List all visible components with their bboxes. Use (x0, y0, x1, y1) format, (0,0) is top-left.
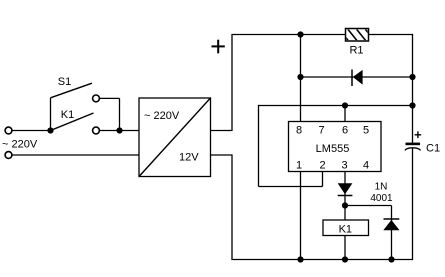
wire flyback drop (391, 206, 393, 260)
wire threshold row (259, 105, 413, 107)
svg-text:7: 7 (318, 125, 324, 137)
relay coil K1 (323, 220, 369, 236)
wire right rail lower (412, 149, 414, 260)
svg-text:12V: 12V (179, 152, 199, 164)
node K (bottom rail / flyback) (388, 256, 394, 262)
svg-text:2: 2 (319, 159, 325, 171)
svg-text:1N: 1N (375, 182, 388, 193)
node H (output / flyback branch) (342, 202, 348, 208)
node C (top rail / pin8 riser) (297, 31, 303, 37)
svg-text:K1: K1 (339, 224, 352, 236)
svg-text:5: 5 (363, 125, 369, 137)
wire K1 contact to transformer primary top (100, 130, 139, 132)
node I (bottom rail / pin1) (297, 256, 303, 262)
diode D1 (points left) (352, 70, 363, 87)
wire bottom rail (231, 259, 413, 261)
wire pin6 stub (344, 106, 346, 122)
svg-text:4: 4 (363, 159, 369, 171)
wire node H to flyback diode (345, 205, 392, 207)
wire diode row (301, 76, 413, 78)
op-amp/timer U1 LM555 body (289, 122, 382, 172)
svg-text:4001: 4001 (370, 193, 393, 204)
relay contact K1 circle (93, 127, 100, 134)
plus sign (C1 polarity) (415, 131, 422, 138)
wire S1 contact to corner (100, 97, 120, 99)
wire T1 to node A (12, 130, 50, 132)
wire pin2 stub (322, 172, 324, 187)
plus sign (positive rail) (212, 40, 225, 54)
svg-text:1: 1 (296, 159, 302, 171)
svg-text:8: 8 (296, 125, 302, 137)
terminal T2 (mains input bottom) (5, 152, 12, 159)
diode D3 1N4001 (points up) (383, 219, 399, 230)
wire pin3 output drop (344, 172, 346, 260)
wire loop bottom horizontal (259, 186, 323, 188)
node A (junction dot) (47, 127, 53, 133)
svg-text:6: 6 (342, 125, 348, 137)
wire secondary top output (211, 130, 233, 132)
svg-text:~ 220V: ~ 220V (2, 139, 38, 151)
node B (junction dot) (116, 127, 122, 133)
resistor R1 (339, 29, 374, 42)
svg-text:R1: R1 (349, 45, 363, 57)
wire drop to bottom rail (231, 154, 233, 259)
wire right rail upper (412, 34, 414, 143)
node D (pin8 riser / diode wire) (297, 74, 303, 80)
diode D2 (points down) (338, 183, 353, 195)
node F (threshold row / pin6 stub) (342, 102, 348, 108)
wire loop left vertical (pin2 tie) (258, 105, 260, 187)
capacitor C1 (405, 143, 421, 151)
node E (diode row / right rail) (409, 74, 415, 80)
node G (threshold row / right rail) (409, 102, 415, 108)
svg-text:K1: K1 (61, 109, 74, 121)
wire node A riser to S1 (50, 98, 52, 131)
wire T2 to transformer primary bottom (12, 154, 139, 156)
wire riser to top rail (231, 35, 233, 132)
wire top rail (231, 34, 412, 36)
svg-text:~ 220V: ~ 220V (144, 110, 180, 122)
svg-text:S1: S1 (58, 76, 71, 88)
switch S1 contact circle (93, 95, 100, 102)
wire corner down to node B (119, 98, 121, 130)
wire pin1 to ground rail (300, 172, 302, 260)
switch S1 arm (51, 83, 93, 98)
terminal T1 (mains input top) (5, 127, 12, 134)
node J (bottom rail / relay) (342, 256, 348, 262)
transformer TR1 body (139, 98, 211, 177)
svg-text:C1: C1 (426, 142, 440, 154)
wire pin8 riser (300, 35, 302, 122)
svg-text:3: 3 (341, 159, 347, 171)
wire secondary bottom output (211, 154, 233, 156)
relay contact K1 arm (51, 113, 94, 131)
svg-text:LM555: LM555 (316, 143, 350, 155)
